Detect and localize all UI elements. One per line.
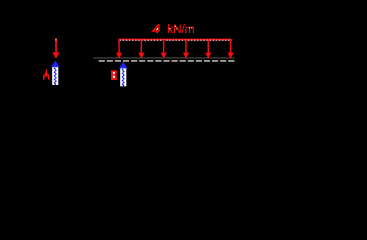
UDL arrow 2 [138,40,144,59]
node label A (red) [43,69,49,79]
reaction arrow at B: white shaft [120,68,126,86]
UDL top line (red) [119,39,232,41]
beam element line (solid gray) [93,57,235,59]
node label B (red with white counters) [111,70,117,80]
UDL top line white dash overlay [120,39,232,41]
svg-text:kN/m: kN/m [167,22,194,36]
UDL arrow 3 [161,40,167,59]
load value glyph "4" (red with white counter) [152,24,160,33]
UDL arrow 6 [227,40,233,59]
UDL arrow 5 [205,40,211,59]
reaction arrow at B: blue zigzag centerline [122,69,125,86]
UDL arrow 4 [183,40,189,59]
reaction arrow at A: blue arrowhead [51,60,60,67]
beam axis dashed line (light) [99,60,235,62]
reaction arrow at A: blue zigzag centerline [54,68,57,86]
point load arrow at A (red, downward) [52,38,59,59]
UDL arrow 1 [116,40,122,59]
reaction arrow at A: white shaft [52,67,58,85]
white counter inside the 4 [156,27,158,30]
reaction arrow at B: blue arrowhead [119,62,128,69]
white highlights inside kN/m glyphs [169,26,192,30]
